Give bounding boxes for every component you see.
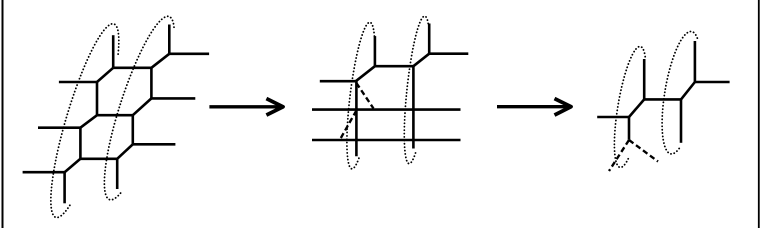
wire V3''-V2' diagonal [413, 54, 429, 66]
wire chain2 vertical [412, 66, 415, 148]
wire Va-Vb horizontal [644, 98, 681, 101]
wire top stub S1 [643, 59, 646, 99]
wire V5-V4 diagonal [133, 98, 152, 115]
dotted ellipse E5 (right panel, left loop) [614, 46, 645, 167]
wire V6' pendant left [320, 80, 356, 83]
wire V8 pendant left [38, 126, 80, 129]
wire V8-V10 vertical [79, 128, 82, 159]
wire V11 bottom stub [63, 172, 66, 203]
wire Vb-Vd diagonal [681, 82, 695, 99]
wire top stub T2' [428, 24, 431, 54]
wire V6-V7 vertical [96, 82, 99, 115]
dashed diagonal D2 [340, 111, 356, 140]
wire row1 horizontal [312, 108, 461, 111]
wire V1'-V6' diagonal [356, 66, 375, 81]
wire V1'-V2' horizontal [375, 65, 414, 68]
wire V10-V12 horizontal [80, 158, 117, 161]
wire top stub T1' [374, 36, 377, 66]
wire V3 pendant right [169, 52, 209, 55]
dotted ellipse E4 (middle panel, right loop) [404, 16, 428, 164]
frame left edge [2, 0, 4, 228]
wire V10-V11 diagonal [65, 159, 81, 172]
dashed diagonal D4 [629, 140, 658, 162]
wire chain1 vertical [355, 81, 358, 156]
wire V11 pendant left [23, 171, 65, 174]
wire V13 pendant right [133, 143, 176, 146]
wire row2 horizontal [312, 139, 461, 142]
wire V4-V2 vertical [150, 68, 153, 99]
dotted ellipse E6 (right panel, right loop) [662, 31, 697, 153]
wire V7-V5 horizontal [97, 114, 133, 117]
wire V7-V8 diagonal [80, 115, 97, 128]
wire V3 top stub [168, 25, 171, 54]
wire top stub T1 [112, 35, 115, 68]
wire V4 pendant right [151, 97, 195, 100]
wire V6-V1 diagonal [97, 68, 113, 82]
dotted ellipse E1 (left panel, left loop) [51, 24, 119, 218]
dotted ellipse E3 (middle panel, left loop) [347, 22, 375, 169]
wire V1-V2 horizontal [113, 67, 151, 70]
wire Vd pendant right [695, 81, 730, 84]
wire Vc vertical [628, 117, 631, 140]
wire V12 bottom stub [116, 159, 119, 189]
wire V3'' pendant right [429, 52, 468, 55]
dashed diagonal D3 [609, 140, 629, 171]
wire Vc pendant left [597, 116, 629, 119]
wire Vd top stub [694, 41, 697, 82]
dashed diagonal D1 [356, 83, 373, 109]
wire V13-V5 vertical [132, 115, 135, 144]
arrow 1 (left to middle) [209, 99, 283, 116]
wire V12-V13 diagonal [117, 144, 133, 159]
wire Vb vertical [680, 99, 683, 142]
arrow 2 (middle to right) [497, 99, 571, 116]
dotted ellipse E2 (left panel, right loop) [104, 16, 174, 200]
wire V6 pendant left [59, 81, 97, 84]
wire Va-Vc diagonal [629, 99, 644, 117]
frame right edge [758, 0, 760, 228]
wire V2-V3 diagonal [151, 54, 169, 68]
